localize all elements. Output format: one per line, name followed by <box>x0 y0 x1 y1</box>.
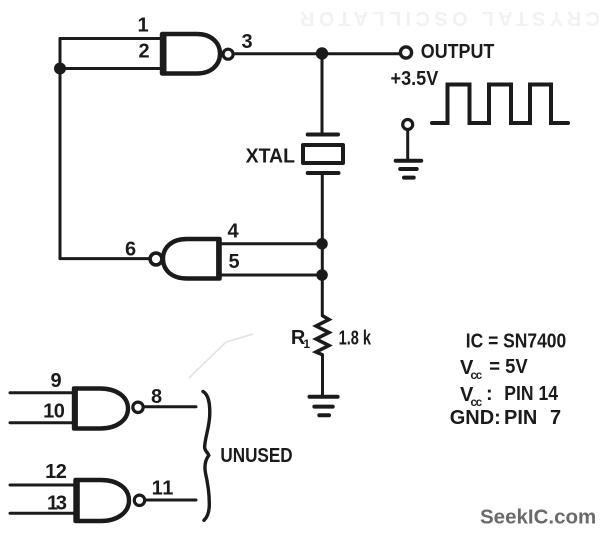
svg-text::: : <box>486 383 493 405</box>
svg-text:6: 6 <box>125 239 136 261</box>
svg-text:5: 5 <box>228 251 239 273</box>
svg-text:9: 9 <box>50 370 61 392</box>
svg-text:OUTPUT: OUTPUT <box>421 41 495 63</box>
svg-text:CRYSTAL OSCILLATOR: CRYSTAL OSCILLATOR <box>299 7 600 29</box>
svg-text:1: 1 <box>303 337 310 351</box>
svg-text:+3.5V: +3.5V <box>391 68 439 90</box>
svg-text:SeekIC.com: SeekIC.com <box>480 506 596 529</box>
svg-text:PIN 14: PIN 14 <box>504 383 558 405</box>
svg-text:IC = SN7400: IC = SN7400 <box>466 331 566 353</box>
svg-text:UNUSED: UNUSED <box>220 445 292 467</box>
svg-text:12: 12 <box>45 461 67 483</box>
svg-text:8: 8 <box>151 386 162 408</box>
svg-text:7: 7 <box>550 407 561 429</box>
svg-text:XTAL: XTAL <box>246 146 295 168</box>
svg-text:2: 2 <box>138 41 149 63</box>
svg-text:= 5V: = 5V <box>489 356 528 378</box>
svg-text:3: 3 <box>241 31 252 53</box>
svg-text:cc: cc <box>471 370 483 382</box>
svg-text:GND:: GND: <box>450 407 501 429</box>
svg-text:1: 1 <box>137 15 148 37</box>
svg-text:PIN: PIN <box>504 407 537 429</box>
svg-text:11: 11 <box>152 478 174 500</box>
svg-text:10: 10 <box>43 401 65 423</box>
svg-text:13: 13 <box>47 493 67 515</box>
svg-text:4: 4 <box>227 221 239 243</box>
svg-text:1.8 k: 1.8 k <box>339 328 372 350</box>
